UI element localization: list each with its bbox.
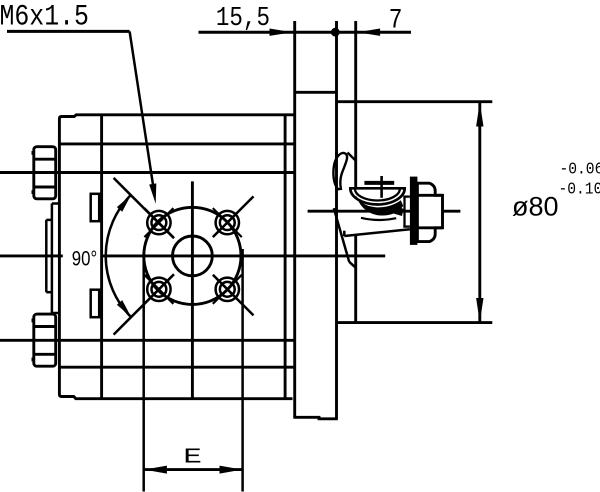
svg-text:ø80: ø80 bbox=[512, 191, 559, 221]
svg-text:E: E bbox=[183, 445, 202, 469]
svg-text:M6x1.5: M6x1.5 bbox=[0, 1, 89, 34]
svg-text:90°: 90° bbox=[72, 248, 97, 271]
svg-text:15,5: 15,5 bbox=[216, 3, 270, 33]
svg-text:7: 7 bbox=[389, 4, 403, 36]
svg-text:-0.06: -0.06 bbox=[560, 159, 600, 178]
svg-text:-0.10: -0.10 bbox=[559, 179, 600, 198]
